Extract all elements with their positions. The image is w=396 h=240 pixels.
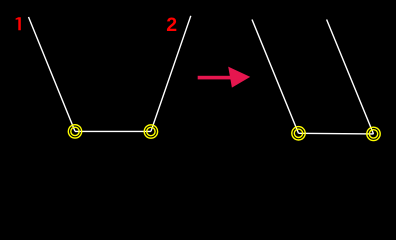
line 2 (right slanted line of left figure) <box>151 16 191 132</box>
line 1 (left slanted line of left figure) <box>29 17 76 131</box>
endpoint marker B (right circle of left figure) <box>144 125 157 138</box>
endpoint marker B' (right circle of right figure) <box>367 127 380 140</box>
endpoint marker A' (left circle of right figure) <box>292 127 305 140</box>
arrow (transformation arrow) <box>198 67 251 88</box>
label 1 <box>16 17 21 30</box>
svg-text:2: 2 <box>166 14 177 36</box>
base segment of left figure <box>75 130 151 132</box>
base segment of right figure <box>299 132 374 135</box>
endpoint marker A (left circle of left figure) <box>68 125 81 138</box>
line 1' (left slanted line of right figure) <box>252 20 299 134</box>
line 2' (right slanted line of right figure, parallel to 1') <box>327 20 374 134</box>
